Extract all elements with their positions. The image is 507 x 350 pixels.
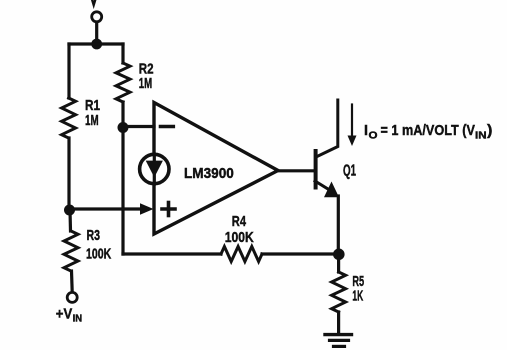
svg-text:R3: R3 [87, 227, 101, 244]
resistor R5 [332, 272, 346, 312]
svg-text:): ) [487, 122, 492, 139]
svg-text:1K: 1K [352, 288, 363, 305]
wire R3 from + node down [68, 210, 72, 231]
terminal V+ [92, 12, 102, 22]
wire R5 to ground [337, 312, 340, 333]
svg-text:IN: IN [73, 312, 83, 324]
svg-text:O: O [369, 129, 378, 141]
svg-text:R4: R4 [232, 213, 247, 230]
wire + input [70, 207, 143, 210]
wire R2 to - input node [121, 102, 124, 128]
wire - input [123, 125, 154, 128]
node: - input node [118, 122, 129, 133]
wire R3 to terminal [70, 271, 74, 292]
svg-text:+V: +V [56, 305, 72, 322]
arrowhead into + input [140, 203, 154, 214]
Q1 emitter [315, 181, 328, 189]
Q1 collector [316, 100, 338, 157]
terminal +VIN [67, 292, 77, 302]
wire left branch down to R1 [67, 44, 70, 98]
node: top rail junction [91, 39, 102, 50]
svg-text:IN: IN [475, 129, 487, 141]
V+ supply label (clipped at top) [91, 0, 96, 5]
wire R4 to emitter node [262, 252, 339, 255]
svg-text:Q1: Q1 [343, 162, 356, 179]
wire terminal to top rail [95, 22, 98, 44]
op-amp U1 LM3900 triangle [154, 103, 278, 235]
transistor Q1 base bar [314, 151, 318, 188]
wire feedback vertical [121, 128, 124, 254]
Q1 emitter arrowhead [324, 182, 339, 198]
svg-text:1M: 1M [139, 75, 152, 92]
svg-text:100K: 100K [225, 229, 254, 246]
label R4 value [225, 213, 254, 246]
label R1 value [85, 97, 100, 129]
label R3 value [86, 227, 111, 262]
label +VIN [56, 305, 82, 324]
svg-text:1M: 1M [85, 112, 99, 129]
current source arrow [146, 161, 163, 178]
resistor R2 [116, 63, 130, 102]
plus sign [162, 207, 175, 211]
node: + input node [64, 205, 75, 216]
wire node to R5 [337, 254, 340, 272]
wire emitter down to node [337, 196, 340, 254]
node: emitter/R5/R4 junction [333, 249, 345, 261]
label R5 value [352, 273, 364, 305]
current source line through [153, 154, 156, 184]
wire R1 to + input node [67, 138, 70, 210]
current source circle on left edge [140, 154, 169, 183]
resistor R4 [221, 247, 262, 262]
wire op-amp output to base [278, 169, 315, 172]
output current arrow [351, 105, 353, 139]
wire R2 branch down [121, 44, 124, 63]
wire feedback horizontal to R4 [123, 252, 221, 255]
svg-text:LM3900: LM3900 [184, 165, 234, 182]
wire top rail [69, 42, 123, 45]
minus sign [161, 125, 174, 129]
ground [325, 333, 352, 336]
label R2 value [139, 60, 154, 92]
label Io = 1 mA/VOLT (Vin) [364, 122, 492, 142]
svg-text:100K: 100K [86, 245, 111, 262]
svg-text:= 1 mA/VOLT (V: = 1 mA/VOLT (V [381, 122, 475, 139]
svg-text:I: I [364, 122, 368, 139]
resistor R1 [62, 98, 76, 138]
resistor R3 [64, 231, 78, 271]
